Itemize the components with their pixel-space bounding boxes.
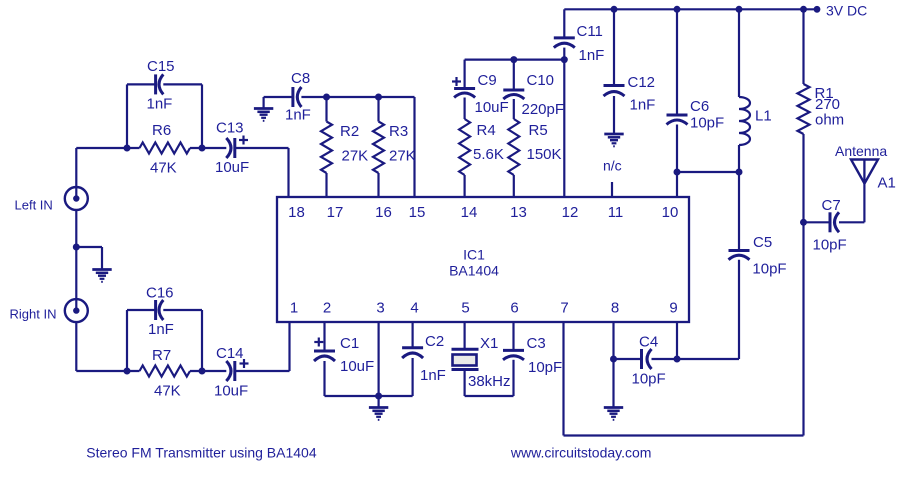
capacitor C13 10uF [215, 120, 289, 177]
svg-text:220pF: 220pF [522, 101, 565, 118]
wire pin 10 [674, 169, 681, 198]
svg-text:10uF: 10uF [475, 99, 509, 116]
svg-text:C5: C5 [753, 234, 772, 251]
svg-text:1nF: 1nF [148, 321, 174, 338]
pin 8 label [611, 300, 619, 317]
svg-text:1nF: 1nF [420, 367, 446, 384]
ground (C12) [604, 134, 623, 146]
capacitor C8 1nF [264, 70, 415, 124]
resistor R6 47K [76, 122, 226, 177]
connector Left IN [15, 187, 88, 213]
svg-text:C6: C6 [690, 98, 709, 115]
svg-text:n/c: n/c [603, 158, 622, 174]
svg-text:14: 14 [461, 204, 478, 221]
svg-text:Antenna: Antenna [835, 143, 887, 159]
wire Right IN down to R7 [75, 322, 77, 371]
ground (input common) [76, 247, 111, 282]
svg-text:C15: C15 [147, 58, 175, 75]
junction dots on power rail [611, 6, 808, 13]
resistor R3 27K [373, 94, 416, 198]
pin 17 label [327, 204, 344, 221]
capacitor C4 10pF [614, 334, 740, 388]
svg-text:C2: C2 [425, 333, 444, 350]
wire pin 1 [288, 322, 290, 371]
svg-text:C8: C8 [291, 70, 310, 87]
svg-text:17: 17 [327, 204, 344, 221]
pin 16 label [375, 204, 392, 221]
pin 12 label [562, 204, 579, 221]
wire pin 12 [563, 60, 565, 197]
svg-text:10uF: 10uF [340, 358, 374, 375]
pin 13 label [510, 204, 527, 221]
capacitor C15 1nF [127, 58, 202, 148]
svg-text:C12: C12 [628, 74, 656, 91]
svg-text:C10: C10 [527, 72, 555, 89]
capacitor C11 1nF [554, 9, 605, 64]
svg-text:9: 9 [669, 300, 677, 317]
svg-text:C11: C11 [577, 23, 603, 40]
svg-text:10pF: 10pF [752, 261, 786, 278]
wire C6 node to L1 node [677, 169, 743, 176]
svg-text:BA1404: BA1404 [449, 262, 499, 278]
svg-text:1nF: 1nF [630, 97, 656, 114]
svg-text:Right IN: Right IN [10, 306, 57, 321]
pin 3 label [376, 300, 384, 317]
wire pin 8 [610, 322, 617, 363]
svg-text:C13: C13 [216, 120, 244, 137]
svg-text:3: 3 [376, 300, 384, 317]
wire C11 node to C9/C10 rail [465, 56, 568, 63]
capacitor C10 220pF [503, 60, 564, 119]
pin 11 stub n/c [603, 158, 622, 198]
resistor R1 270 ohm [798, 9, 845, 222]
wire pin 15 [413, 97, 415, 197]
svg-text:R5: R5 [529, 122, 548, 139]
svg-text:R6: R6 [152, 122, 171, 139]
svg-text:12: 12 [562, 204, 579, 221]
resistor R5 150K [508, 119, 561, 197]
node 3V DC terminal dot [814, 3, 868, 19]
resistor R7 47K [76, 347, 226, 400]
capacitor C3 10pF [503, 322, 562, 396]
IC U1 BA1404 body [277, 197, 689, 322]
pin 7 label [560, 300, 568, 317]
capacitor C5 10pF [729, 172, 787, 359]
pin 2 label [323, 300, 331, 317]
svg-text:C16: C16 [146, 285, 174, 302]
power rail 3V DC [564, 8, 817, 10]
svg-text:3V DC: 3V DC [826, 3, 867, 19]
svg-text:10pF: 10pF [813, 237, 847, 254]
svg-text:C3: C3 [527, 335, 546, 352]
wire X1 to C3 bottom [465, 395, 514, 397]
svg-text:13: 13 [510, 204, 527, 221]
svg-text:1nF: 1nF [147, 96, 173, 113]
svg-text:5: 5 [461, 300, 469, 317]
svg-text:R7: R7 [152, 347, 171, 364]
svg-text:7: 7 [560, 300, 568, 317]
ground (pin 8) [604, 359, 623, 420]
svg-text:47K: 47K [154, 383, 181, 400]
svg-text:C4: C4 [639, 334, 658, 351]
svg-text:18: 18 [288, 204, 305, 221]
svg-text:A1: A1 [878, 175, 896, 192]
svg-text:27K: 27K [389, 148, 416, 165]
svg-text:C7: C7 [822, 197, 841, 214]
resistor R2 27K [321, 94, 368, 198]
svg-text:38kHz: 38kHz [468, 373, 511, 390]
svg-text:Stereo FM Transmitter using BA: Stereo FM Transmitter using BA1404 [86, 444, 317, 460]
pin 11 label [608, 204, 624, 221]
svg-text:ohm: ohm [815, 112, 844, 129]
node R1/C7 junction [800, 219, 807, 226]
svg-text:10pF: 10pF [528, 359, 562, 376]
svg-text:47K: 47K [150, 160, 177, 177]
svg-text:C1: C1 [340, 335, 359, 352]
svg-text:R4: R4 [477, 122, 496, 139]
inductor L1 [739, 9, 772, 172]
wire R1 down to bottom return [802, 222, 804, 435]
wire Left IN up to R6 [75, 148, 77, 199]
wire pin 3 [378, 322, 380, 396]
pin 4 label [410, 300, 418, 317]
capacitor C14 10uF [214, 345, 290, 400]
svg-text:6: 6 [510, 300, 518, 317]
svg-text:10pF: 10pF [690, 115, 724, 132]
svg-text:www.circuitstoday.com: www.circuitstoday.com [510, 445, 652, 461]
svg-text:2: 2 [323, 300, 331, 317]
svg-text:8: 8 [611, 300, 619, 317]
svg-text:4: 4 [410, 300, 418, 317]
svg-text:C14: C14 [216, 345, 244, 362]
pin 9 label [669, 300, 677, 317]
capacitor C2 1nF [402, 322, 446, 396]
svg-text:X1: X1 [480, 335, 498, 352]
capacitor C7 10pF [804, 197, 865, 254]
pin 6 label [510, 300, 518, 317]
pin 15 label [409, 204, 426, 221]
capacitor C12 1nF [604, 9, 656, 134]
svg-text:R2: R2 [340, 123, 359, 140]
svg-text:1: 1 [290, 300, 298, 317]
pin 5 label [461, 300, 469, 317]
pin 1 label [290, 300, 298, 317]
wire pin 9 [676, 322, 678, 359]
svg-text:10: 10 [662, 204, 679, 221]
antenna A1 [835, 143, 896, 222]
capacitor C16 1nF [127, 285, 202, 372]
svg-text:L1: L1 [755, 108, 772, 125]
caption website [510, 445, 652, 461]
svg-text:IC1: IC1 [463, 246, 485, 262]
svg-text:16: 16 [375, 204, 392, 221]
svg-text:1nF: 1nF [579, 47, 605, 64]
svg-text:Left IN: Left IN [15, 198, 53, 213]
svg-text:270: 270 [815, 96, 840, 113]
capacitor C6 10pF [667, 9, 725, 172]
svg-text:R3: R3 [389, 123, 408, 140]
ground (pin 3) [369, 396, 388, 420]
caption title [86, 444, 317, 460]
svg-text:1nF: 1nF [285, 107, 311, 124]
crystal X1 38kHz [452, 322, 511, 396]
ground (C8) [254, 97, 273, 121]
svg-text:10uF: 10uF [214, 383, 248, 400]
wire Left IN to Right IN [73, 210, 80, 310]
svg-text:5.6K: 5.6K [473, 146, 504, 163]
wire bottom return to pin 7 [564, 322, 804, 436]
svg-text:150K: 150K [527, 146, 562, 163]
svg-text:27K: 27K [342, 148, 369, 165]
connector Right IN [10, 299, 88, 322]
wire C1/C2 ground bus [325, 393, 413, 400]
svg-text:15: 15 [409, 204, 426, 221]
capacitor C1 10uF [314, 322, 374, 396]
pin 10 label [662, 204, 679, 221]
svg-text:10pF: 10pF [632, 371, 666, 388]
svg-text:10uF: 10uF [215, 159, 249, 176]
pin 18 label [288, 204, 305, 221]
svg-text:11: 11 [608, 204, 624, 221]
wire pin 18 [287, 148, 289, 197]
resistor R4 5.6K [459, 119, 504, 197]
svg-text:C9: C9 [478, 72, 497, 89]
capacitor C9 10uF [452, 60, 509, 119]
pin 14 label [461, 204, 478, 221]
